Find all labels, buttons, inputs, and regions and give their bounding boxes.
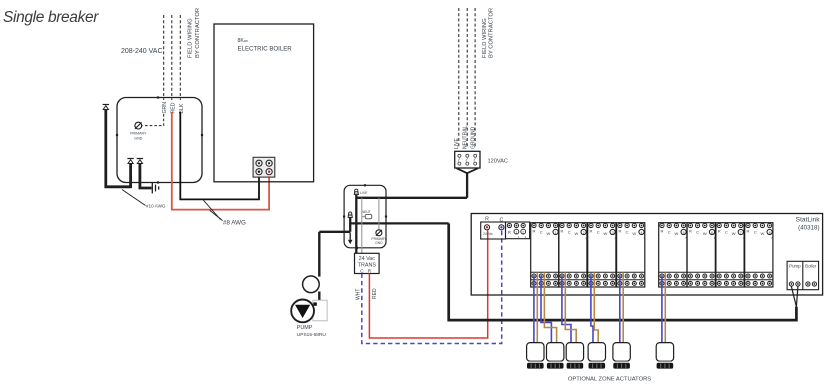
- svg-text:1: 1: [515, 230, 517, 234]
- svg-text:W: W: [761, 231, 765, 236]
- gray wire ground screw: [378, 198, 380, 230]
- svg-text:UPS15-58RU: UPS15-58RU: [297, 332, 327, 338]
- junction box enclosure: [344, 185, 386, 248]
- lug L3 (panel ground): [137, 159, 143, 164]
- svg-text:RED: RED: [372, 288, 378, 299]
- svg-text:2: 2: [583, 231, 585, 235]
- svg-text:PRIMARY: PRIMARY: [130, 132, 147, 136]
- wire zone5 brown: [622, 272, 624, 342]
- boiler terminal T4: [266, 169, 272, 175]
- wire zone6 blue: [661, 276, 663, 343]
- wire feeder heavy: [106, 110, 131, 187]
- zone box 5: [659, 223, 688, 287]
- svg-text:C: C: [500, 218, 504, 224]
- svg-text:W: W: [575, 231, 579, 236]
- svg-text:RED: RED: [171, 102, 177, 113]
- zone box 3: [588, 223, 617, 287]
- wire L2 down heavy: [129, 164, 132, 189]
- wire LIVE heavy vertical: [355, 195, 357, 254]
- zone actuator 6: [656, 343, 673, 369]
- svg-text:C: C: [568, 230, 571, 235]
- boiler terminal T1: [256, 160, 262, 166]
- svg-text:R: R: [485, 217, 489, 223]
- statlink Pump Boiler box: [787, 261, 819, 289]
- wire zone3 blue: [562, 276, 571, 343]
- svg-text:W: W: [632, 231, 636, 236]
- StatLink panel enclosure: [471, 214, 822, 296]
- wire WHT (dashed) trans C to statlink C: [362, 230, 502, 343]
- wire L3 to ground heavy: [140, 164, 152, 189]
- statlink aux box R 1 2: [506, 222, 530, 239]
- wire GRN to ground screw (dashed): [143, 114, 164, 126]
- svg-text:W: W: [547, 231, 551, 236]
- zone actuator 3: [566, 343, 583, 369]
- gray wire trans neutral: [361, 198, 363, 254]
- svg-text:1: 1: [555, 231, 557, 235]
- zone actuator 1: [527, 343, 544, 369]
- svg-text:R: R: [508, 230, 511, 235]
- wire receptacle drop heavy: [466, 173, 468, 198]
- svg-text:ELECTRIC BOILER: ELECTRIC BOILER: [238, 46, 293, 53]
- label PRIMARY GND (jbox): [371, 237, 387, 245]
- svg-text:GROUND: GROUND: [471, 126, 477, 149]
- svg-text:W: W: [675, 231, 679, 236]
- note FIELD WIRING BY CONTRACTOR (left): [187, 8, 201, 58]
- boiler terminal T2: [266, 160, 272, 166]
- svg-text:WHT: WHT: [356, 289, 362, 300]
- wire NEUT heavy to statlink: [350, 222, 449, 224]
- junction box ticks: [343, 184, 387, 249]
- wire RED trans R to statlink R: [369, 230, 487, 338]
- wire zone2 blue: [541, 276, 551, 343]
- svg-text:8: 8: [769, 231, 771, 235]
- transformer 24 Vac TRANS box: [355, 253, 380, 273]
- svg-text:FIELD WIRING: FIELD WIRING: [482, 18, 488, 58]
- svg-text:(40318): (40318): [798, 225, 819, 232]
- svg-text:W: W: [732, 231, 736, 236]
- svg-text:BY CONTRACTOR: BY CONTRACTOR: [489, 8, 495, 58]
- wire zone1 blue: [533, 276, 535, 343]
- svg-text:NEUT: NEUT: [362, 210, 371, 214]
- svg-text:C: C: [696, 230, 699, 235]
- svg-text:C: C: [597, 230, 600, 235]
- svg-text:R: R: [533, 228, 536, 233]
- svg-text:#8 AWG: #8 AWG: [223, 220, 246, 227]
- note FIELD WIRING BY CONTRACTOR (right): [482, 8, 495, 58]
- pump housing: [313, 300, 327, 321]
- svg-text:#10 AWG: #10 AWG: [146, 204, 166, 209]
- pump impeller triangle: [295, 305, 310, 318]
- label PRIMARY GND (panel): [130, 132, 147, 141]
- wire NEUT heavy vertical: [349, 218, 351, 232]
- boiler terminal block: [253, 157, 275, 177]
- wire zone5 blue: [619, 276, 621, 343]
- svg-text:2: 2: [522, 230, 524, 234]
- svg-text:PUMP: PUMP: [297, 325, 313, 331]
- receptacle slots: [458, 154, 477, 165]
- svg-text:R: R: [718, 228, 721, 233]
- svg-text:LIVE: LIVE: [454, 137, 460, 149]
- electric boiler box: [214, 24, 314, 182]
- svg-text:Single breaker: Single breaker: [3, 9, 99, 26]
- zone box 6: [687, 223, 716, 287]
- wire pump feed heavy run: [449, 223, 797, 320]
- svg-text:7: 7: [740, 231, 742, 235]
- zone box 4: [617, 223, 646, 287]
- svg-text:208-240 VAC: 208-240 VAC: [121, 48, 163, 55]
- leader #10 AWG: [122, 190, 146, 206]
- svg-text:24 Vac: 24 Vac: [359, 256, 376, 262]
- svg-text:R: R: [747, 228, 750, 233]
- wire loop: [303, 276, 320, 293]
- svg-text:C: C: [626, 230, 629, 235]
- svg-text:C: C: [725, 230, 728, 235]
- leaders #8 AWG: [203, 200, 222, 220]
- svg-text:3: 3: [612, 231, 614, 235]
- svg-text:R: R: [689, 228, 692, 233]
- breaker panel ticks: [116, 96, 203, 183]
- lug L1 (feeder): [103, 105, 109, 110]
- zone actuator 4: [588, 343, 605, 369]
- wire zone6 brown: [664, 272, 666, 342]
- svg-text:C: C: [540, 230, 543, 235]
- zone box 7: [716, 223, 745, 287]
- zone box 1: [531, 223, 560, 287]
- pump circle: [291, 300, 314, 323]
- lug L2 (panel neutral): [127, 159, 133, 164]
- zone box 2: [559, 223, 588, 287]
- svg-text:GND: GND: [375, 241, 383, 245]
- wire zone2 brown: [544, 272, 556, 342]
- svg-text:GND: GND: [134, 136, 142, 140]
- svg-text:GRN: GRN: [162, 102, 168, 114]
- wire nut LIVE: [354, 189, 358, 194]
- zone actuator 2: [547, 343, 564, 369]
- svg-text:C: C: [668, 230, 671, 235]
- svg-text:FIELD WIRING: FIELD WIRING: [187, 18, 193, 58]
- wire pump return heavy: [319, 231, 350, 233]
- svg-text:LIVE: LIVE: [360, 191, 368, 195]
- wire receptacle V: [457, 168, 479, 173]
- svg-text:R: R: [561, 228, 564, 233]
- ground screw PRIMARY GND (panel): [135, 122, 142, 129]
- wire nut NEUT: [348, 212, 352, 217]
- wire LIVE field (dashed): [458, 8, 460, 148]
- boiler terminal T3: [256, 169, 262, 175]
- wire pump drop heavy: [318, 232, 320, 277]
- svg-text:BY CONTRACTOR: BY CONTRACTOR: [195, 8, 201, 58]
- wire RED field (dashed): [171, 15, 173, 100]
- svg-text:120VAC: 120VAC: [488, 159, 508, 165]
- terminal R (statlink): [484, 225, 489, 230]
- svg-text:R: R: [590, 228, 593, 233]
- wire zone3 brown: [565, 272, 576, 342]
- receptacle 120VAC box: [455, 151, 480, 168]
- svg-text:24Vdc: 24Vdc: [483, 232, 493, 236]
- wires pump terminals V: [791, 287, 798, 307]
- svg-text:R: R: [618, 228, 621, 233]
- svg-text:Pump: Pump: [789, 264, 801, 269]
- svg-text:TRANS: TRANS: [358, 263, 377, 269]
- wire GRN field (dashed): [163, 15, 165, 100]
- chassis ground symbol: [152, 183, 158, 194]
- breaker panel enclosure: [117, 98, 202, 183]
- fuse link: [362, 214, 372, 218]
- svg-text:C: C: [754, 230, 757, 235]
- wire zone1 brown: [536, 272, 538, 342]
- ground arrow: [348, 233, 353, 245]
- svg-text:W: W: [604, 231, 608, 236]
- wire LIVE heavy horizontal: [356, 197, 467, 199]
- wire zone4 brown: [594, 272, 598, 342]
- svg-text:Boiler: Boiler: [805, 264, 817, 269]
- terminal C (statlink): [499, 225, 504, 230]
- wire NEUTRAL field (dashed): [466, 8, 468, 148]
- ground screw PRIMARY GND (jbox): [376, 230, 382, 236]
- svg-text:StatLink: StatLink: [796, 217, 821, 224]
- svg-text:NEUTRAL: NEUTRAL: [463, 125, 469, 149]
- wire BLK boiler feed: [180, 112, 259, 199]
- wire pump lower heavy: [318, 292, 320, 302]
- svg-text:W: W: [703, 231, 707, 236]
- zone box 8: [745, 223, 774, 287]
- svg-text:4: 4: [641, 231, 643, 235]
- wire GROUND field (dashed): [474, 8, 476, 148]
- wire zone4 blue: [591, 276, 593, 343]
- svg-text:6: 6: [711, 231, 713, 235]
- wire BLK field (dashed): [179, 15, 181, 100]
- statlink R C box: [481, 222, 506, 239]
- svg-text:OPTIONAL ZONE ACTUATORS: OPTIONAL ZONE ACTUATORS: [568, 377, 651, 383]
- svg-text:5: 5: [683, 231, 685, 235]
- svg-text:BLK: BLK: [179, 103, 185, 113]
- zone actuator 5: [613, 343, 630, 369]
- svg-text:R: R: [661, 228, 664, 233]
- wire RED boiler feed: [172, 112, 269, 210]
